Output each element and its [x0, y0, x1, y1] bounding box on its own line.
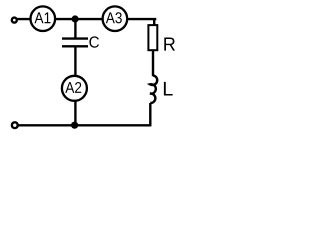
ammeter A2: [62, 76, 87, 101]
terminal top left: [12, 18, 17, 23]
wire middle branch: [74, 19, 76, 38]
ammeter A1: [31, 6, 56, 31]
wire top rail: [16, 18, 156, 20]
inductor L coil: [150, 75, 157, 103]
capacitor C bottom plate: [62, 45, 88, 47]
label R: [164, 38, 175, 51]
resistor R body: [148, 25, 157, 50]
capacitor C top plate: [62, 37, 88, 39]
label L: [164, 82, 173, 96]
wire inductor to bottom rail: [149, 103, 151, 125]
ammeter A3: [103, 6, 128, 31]
wire capacitor to A2: [74, 47, 76, 78]
node junction top: [72, 15, 79, 22]
terminal bottom left: [12, 122, 18, 128]
label C: [89, 36, 99, 47]
wire resistor to inductor: [152, 50, 154, 76]
wire A2 to bottom rail: [74, 100, 76, 125]
wire bottom rail: [18, 124, 152, 126]
node junction bottom: [71, 122, 78, 129]
wire right branch top: [153, 19, 155, 26]
